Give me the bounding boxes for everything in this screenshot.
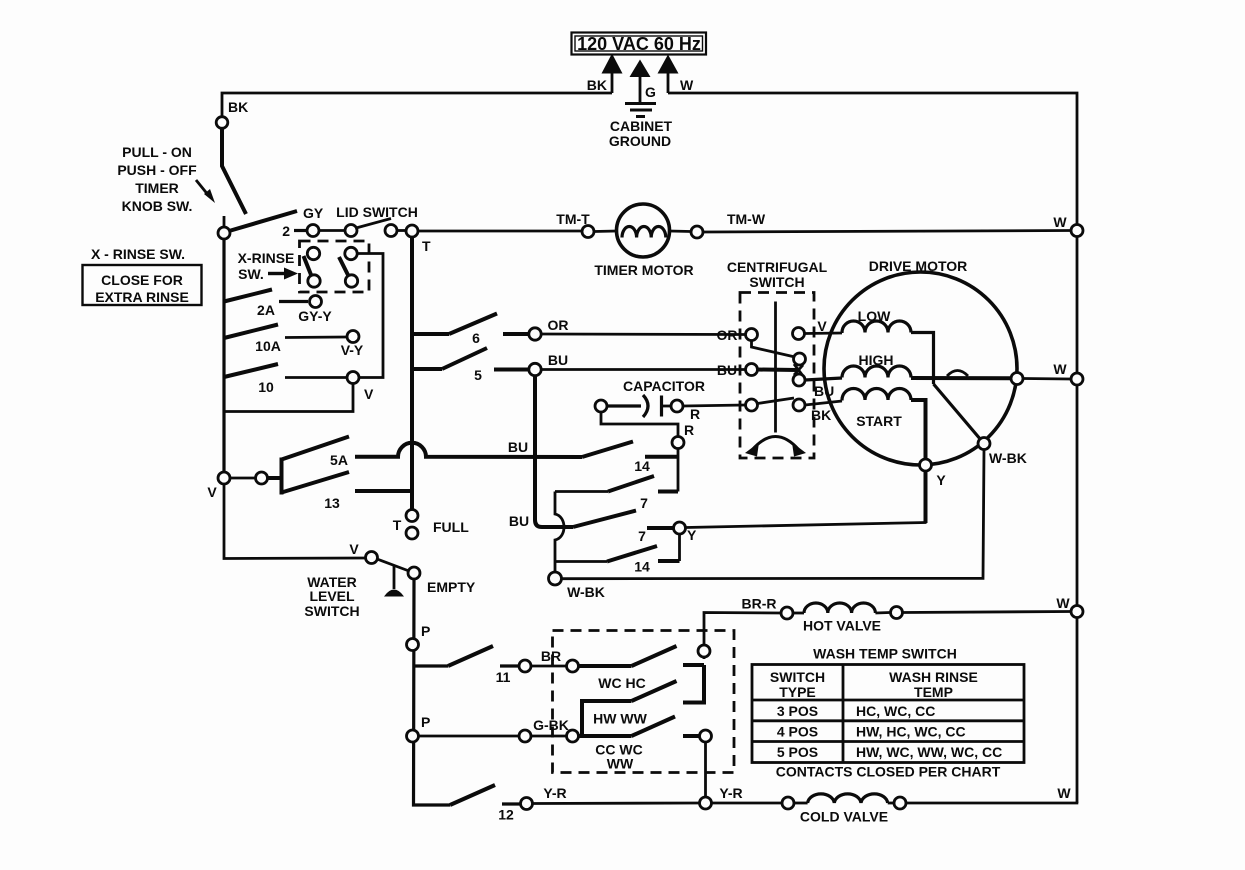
terminal W-BK motor bbox=[978, 438, 990, 450]
right bus wire bbox=[1076, 236, 1079, 803]
switch 7 (lower) bbox=[573, 511, 673, 545]
svg-text:120 VAC 60 Hz: 120 VAC 60 Hz bbox=[577, 34, 701, 54]
svg-text:EXTRA RINSE: EXTRA RINSE bbox=[95, 289, 189, 305]
svg-text:W: W bbox=[680, 77, 694, 93]
svg-text:LEVEL: LEVEL bbox=[309, 588, 355, 604]
svg-text:Y: Y bbox=[687, 527, 697, 543]
left bus wire bbox=[222, 239, 225, 472]
svg-text:G-BK: G-BK bbox=[533, 717, 569, 733]
wash temp switch table bbox=[752, 646, 1024, 763]
wire capacitor to centrifugal BK bbox=[683, 405, 745, 406]
terminal TM-T bbox=[582, 226, 594, 238]
svg-text:BU: BU bbox=[548, 352, 568, 368]
wire 13 to T bus bbox=[355, 489, 411, 493]
svg-text:R: R bbox=[684, 422, 694, 438]
switch 5A/13 common pole bbox=[268, 437, 350, 512]
wire V loop to bus bbox=[224, 384, 353, 412]
svg-text:SWITCH: SWITCH bbox=[749, 274, 804, 290]
svg-text:CLOSE FOR: CLOSE FOR bbox=[101, 272, 183, 288]
svg-text:OR: OR bbox=[548, 317, 569, 333]
svg-text:SW.: SW. bbox=[238, 266, 264, 282]
svg-text:TYPE: TYPE bbox=[779, 684, 816, 700]
svg-text:P: P bbox=[421, 623, 430, 639]
svg-text:BR-R: BR-R bbox=[742, 596, 777, 612]
centrifugal contact OR bbox=[746, 329, 758, 341]
svg-text:X-RINSE: X-RINSE bbox=[238, 250, 295, 266]
svg-text:7: 7 bbox=[638, 528, 646, 544]
P bus wire bbox=[414, 579, 451, 805]
timer knob annotation bbox=[117, 144, 215, 214]
rotor diagonal bbox=[934, 384, 982, 440]
svg-text:Y-R: Y-R bbox=[719, 785, 742, 801]
water level switch label bbox=[304, 574, 359, 619]
terminal W motor bbox=[1011, 373, 1023, 385]
node W hot valve row bbox=[1071, 606, 1083, 618]
svg-text:GY-Y: GY-Y bbox=[298, 308, 332, 324]
centrifugal contact BK left bbox=[746, 399, 758, 411]
node T bbox=[406, 225, 418, 237]
svg-text:CONTACTS CLOSED PER CHART: CONTACTS CLOSED PER CHART bbox=[776, 764, 1001, 780]
svg-text:TEMP: TEMP bbox=[914, 684, 953, 700]
switch CC WC WW bbox=[579, 717, 700, 772]
wire W-BK to motor bbox=[562, 450, 985, 579]
svg-text:W-BK: W-BK bbox=[989, 450, 1027, 466]
wire OR to centrifugal switch bbox=[541, 333, 745, 336]
svg-text:SWITCH: SWITCH bbox=[770, 669, 825, 685]
node P lower bbox=[407, 730, 419, 742]
svg-text:P: P bbox=[421, 714, 430, 730]
svg-text:Y-R: Y-R bbox=[543, 785, 566, 801]
terminal R bbox=[672, 437, 684, 449]
water level switch arm bbox=[377, 559, 409, 571]
centrifugal mid contact upper bbox=[794, 353, 806, 365]
svg-text:LOW: LOW bbox=[858, 308, 891, 324]
svg-text:WC HC: WC HC bbox=[598, 675, 645, 691]
wire hot valve to bus bbox=[903, 612, 1072, 613]
svg-text:X - RINSE SW.: X - RINSE SW. bbox=[91, 246, 185, 262]
centrifugal mid contact lower BU bbox=[793, 374, 805, 386]
wire motor W to bus bbox=[1023, 377, 1071, 380]
node W top bbox=[1071, 225, 1083, 237]
centrifugal contact BK right bbox=[793, 399, 805, 411]
svg-text:HW WW: HW WW bbox=[593, 711, 647, 727]
terminal Y bbox=[674, 522, 686, 534]
svg-text:CENTRIFUGAL: CENTRIFUGAL bbox=[727, 259, 828, 275]
terminal BR bbox=[519, 660, 531, 672]
terminal G-BK bbox=[519, 730, 531, 742]
wire TM-W to right bus bbox=[703, 231, 1071, 233]
svg-text:HC, WC, CC: HC, WC, CC bbox=[856, 703, 935, 719]
wire BU row with hop over T bus bbox=[355, 443, 582, 457]
switch 11 bbox=[414, 646, 519, 685]
centrifugal contact V bbox=[793, 328, 805, 340]
capacitor C1 bbox=[595, 378, 705, 422]
svg-text:7: 7 bbox=[640, 495, 648, 511]
G supply arrow bbox=[630, 60, 657, 104]
wire P to G-BK bbox=[419, 735, 519, 738]
svg-text:14: 14 bbox=[634, 559, 650, 575]
svg-text:TIMER MOTOR: TIMER MOTOR bbox=[594, 262, 693, 278]
W supply arrow bbox=[658, 55, 695, 94]
brush arc bbox=[947, 371, 968, 377]
wire BU to HIGH winding bbox=[805, 378, 842, 380]
switch 14 (top) bbox=[582, 442, 678, 475]
timer knob switch blade bbox=[222, 128, 246, 214]
switch 2A bbox=[224, 290, 332, 325]
wash temp switch dashed box bbox=[553, 631, 735, 773]
svg-text:BU: BU bbox=[509, 513, 529, 529]
terminal 2 bbox=[294, 229, 307, 232]
node V bbox=[218, 472, 230, 484]
svg-text:V-Y: V-Y bbox=[341, 342, 364, 358]
svg-text:13: 13 bbox=[324, 495, 340, 511]
svg-text:TM-W: TM-W bbox=[727, 211, 766, 227]
svg-text:GY: GY bbox=[303, 205, 324, 221]
terminal CC contact bbox=[700, 730, 712, 742]
node 2 (timer common) bbox=[223, 216, 226, 228]
svg-text:BU: BU bbox=[717, 362, 737, 378]
svg-text:KNOB SW.: KNOB SW. bbox=[122, 198, 193, 214]
terminal OR bbox=[529, 328, 541, 340]
wire CC contact to Y-R node bbox=[704, 742, 707, 797]
svg-text:W: W bbox=[1053, 214, 1067, 230]
svg-text:BK: BK bbox=[587, 77, 607, 93]
centrifugal switch dashed box bbox=[740, 293, 814, 459]
svg-text:6: 6 bbox=[472, 330, 480, 346]
svg-text:CAPACITOR: CAPACITOR bbox=[623, 378, 705, 394]
cabinet ground bbox=[609, 104, 673, 150]
wire X-rinse to V loop bbox=[357, 254, 383, 378]
switch WC HC bbox=[579, 646, 705, 691]
svg-text:PULL - ON: PULL - ON bbox=[122, 144, 192, 160]
terminal W-BK bbox=[549, 572, 562, 585]
svg-text:WASH RINSE: WASH RINSE bbox=[889, 669, 978, 685]
svg-text:COLD VALVE: COLD VALVE bbox=[800, 809, 888, 825]
svg-text:V: V bbox=[349, 541, 359, 557]
switch 14 (bottom) bbox=[555, 546, 680, 575]
svg-text:SWITCH: SWITCH bbox=[304, 603, 359, 619]
power source box 120 VAC 60 Hz bbox=[572, 33, 707, 55]
svg-text:3 POS: 3 POS bbox=[777, 703, 818, 719]
switch HW WW bbox=[579, 681, 707, 736]
svg-text:11: 11 bbox=[496, 669, 511, 685]
water level switch V terminal bbox=[366, 552, 378, 564]
node W motor row bbox=[1071, 373, 1083, 385]
water level switch FULL contacts bbox=[393, 510, 469, 540]
svg-text:W: W bbox=[1053, 361, 1067, 377]
wire V node link bbox=[230, 477, 255, 480]
wire BU to centrifugal switch bbox=[541, 368, 745, 371]
svg-text:T: T bbox=[422, 238, 431, 254]
switch 5 bbox=[412, 348, 528, 383]
BK supply arrow bbox=[587, 54, 623, 94]
svg-text:W-BK: W-BK bbox=[567, 584, 605, 600]
wire V node to water level switch bbox=[224, 484, 365, 559]
svg-text:WW: WW bbox=[607, 756, 634, 772]
svg-text:10: 10 bbox=[258, 379, 274, 395]
svg-text:LID SWITCH: LID SWITCH bbox=[336, 204, 418, 220]
svg-text:EMPTY: EMPTY bbox=[427, 579, 476, 595]
wire top left BK bbox=[222, 93, 612, 117]
wire T node to timer motor bbox=[418, 230, 582, 233]
wire top right W bbox=[668, 93, 1077, 225]
svg-text:BK: BK bbox=[228, 99, 248, 115]
svg-text:5A: 5A bbox=[330, 452, 348, 468]
X-rinse annotation bbox=[238, 250, 298, 282]
svg-text:W: W bbox=[1056, 595, 1070, 611]
cold valve L2 bbox=[712, 794, 907, 825]
svg-text:4 POS: 4 POS bbox=[777, 724, 818, 740]
water level switch weight bbox=[393, 566, 396, 589]
X-rinse switch dashed box bbox=[300, 241, 370, 292]
wire BK to START winding bbox=[805, 401, 842, 405]
svg-text:G: G bbox=[645, 84, 656, 100]
svg-text:W: W bbox=[1057, 785, 1071, 801]
wire Y terminal to 14 contact bbox=[678, 534, 681, 561]
timer motor M1 bbox=[594, 204, 694, 278]
svg-text:5: 5 bbox=[474, 367, 482, 383]
switch 10A bbox=[224, 325, 364, 359]
node BK bbox=[216, 117, 228, 129]
hot valve L1 bbox=[742, 596, 903, 634]
svg-text:2: 2 bbox=[282, 223, 290, 239]
terminal TM-W bbox=[691, 226, 703, 238]
switch 7 (upper) bbox=[555, 476, 678, 511]
CLOSE FOR EXTRA RINSE box bbox=[83, 265, 202, 305]
svg-text:V: V bbox=[817, 318, 827, 334]
X-rinse switch left pole bbox=[304, 247, 321, 287]
contact bracket to hot valve bbox=[702, 665, 706, 703]
svg-text:R: R bbox=[690, 406, 700, 422]
centrifugal blade BU bbox=[758, 368, 798, 373]
svg-text:GROUND: GROUND bbox=[609, 133, 671, 149]
svg-text:CABINET: CABINET bbox=[610, 118, 673, 134]
svg-text:HW, HC, WC, CC: HW, HC, WC, CC bbox=[856, 724, 966, 740]
centrifugal contact BU left bbox=[746, 364, 758, 376]
centrifugal actuator bar bbox=[774, 302, 777, 433]
svg-text:TM-T: TM-T bbox=[556, 211, 590, 227]
wire cold valve to bus corner bbox=[906, 802, 1078, 805]
HIGH winding bbox=[842, 352, 1011, 378]
svg-text:5 POS: 5 POS bbox=[777, 744, 818, 760]
wire BU vertical drop bbox=[535, 376, 573, 528]
wire V to LOW winding bbox=[805, 332, 843, 335]
T bus wire bbox=[410, 237, 414, 510]
svg-text:BU: BU bbox=[508, 439, 528, 455]
switch 6 bbox=[412, 314, 528, 347]
wire R to contacts 14/7 bbox=[677, 449, 680, 492]
svg-text:TIMER: TIMER bbox=[135, 180, 179, 196]
svg-text:12: 12 bbox=[498, 807, 514, 823]
water level switch EMPTY contact bbox=[408, 567, 420, 579]
svg-text:10A: 10A bbox=[255, 338, 281, 354]
svg-text:V: V bbox=[207, 484, 217, 500]
svg-text:14: 14 bbox=[634, 458, 650, 474]
svg-text:BR: BR bbox=[541, 648, 561, 664]
svg-text:HOT VALVE: HOT VALVE bbox=[803, 618, 881, 634]
wire capacitor R loop bbox=[601, 412, 678, 436]
START winding bbox=[842, 389, 926, 460]
svg-text:HIGH: HIGH bbox=[859, 352, 894, 368]
X-rinse switch right pole bbox=[339, 247, 358, 287]
svg-text:OR: OR bbox=[717, 327, 738, 343]
svg-text:START: START bbox=[856, 413, 902, 429]
terminal Y-R bbox=[521, 798, 533, 810]
wire Y to motor bbox=[924, 471, 928, 523]
node P upper bbox=[407, 639, 419, 651]
LOW winding bbox=[842, 308, 934, 384]
svg-text:2A: 2A bbox=[257, 302, 275, 318]
switch 10 bbox=[224, 364, 374, 402]
terminal BU bbox=[529, 363, 541, 375]
node Y-R bbox=[700, 797, 712, 809]
svg-text:PUSH - OFF: PUSH - OFF bbox=[117, 162, 197, 178]
svg-text:FULL: FULL bbox=[433, 519, 469, 535]
svg-text:T: T bbox=[393, 517, 402, 533]
svg-text:BK: BK bbox=[811, 407, 831, 423]
svg-text:Y: Y bbox=[936, 472, 946, 488]
terminal Y motor bbox=[920, 459, 932, 471]
wire Y-R to node bbox=[533, 802, 700, 805]
switch 2 blade to GY bbox=[229, 211, 297, 231]
svg-text:V: V bbox=[364, 386, 374, 402]
switch 12 bbox=[450, 785, 520, 823]
svg-text:HW, WC, WW, WC, CC: HW, WC, WW, WC, CC bbox=[856, 744, 1002, 760]
centrifugal blade OR bbox=[752, 341, 796, 358]
lid switch bbox=[319, 204, 418, 237]
wire W-BK riser with hop bbox=[555, 492, 564, 573]
centrifugal blade BK bbox=[758, 398, 795, 404]
centrifugal curved arrow bbox=[745, 437, 806, 457]
svg-text:WASH TEMP SWITCH: WASH TEMP SWITCH bbox=[813, 646, 957, 662]
